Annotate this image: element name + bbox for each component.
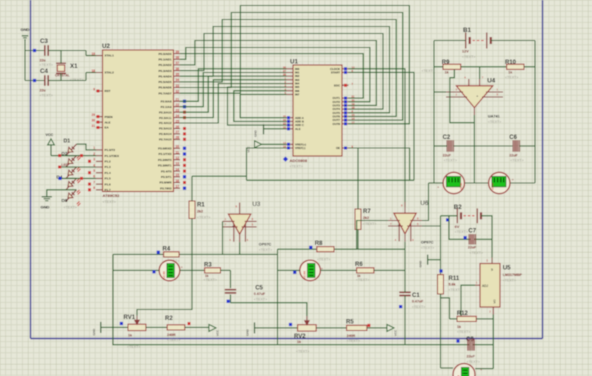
node C5 bottom bbox=[227, 300, 230, 303]
svg-text:15: 15 bbox=[352, 113, 355, 117]
svg-text:PSEN: PSEN bbox=[105, 115, 113, 119]
resistor R12 bbox=[457, 311, 476, 334]
led D4 bbox=[57, 175, 81, 195]
svg-text:+0.88: +0.88 bbox=[303, 271, 307, 279]
wire R1 bottom to RV1 wiper bbox=[137, 219, 192, 316]
wire B1 right rail bbox=[491, 41, 535, 184]
svg-text:B2: B2 bbox=[454, 204, 462, 211]
svg-text:15: 15 bbox=[176, 173, 180, 177]
wire led rail 2 bbox=[58, 166, 96, 168]
wire P0.6 bus to OUT7 bbox=[180, 13, 403, 121]
svg-text:R1: R1 bbox=[197, 203, 205, 209]
svg-text:9: 9 bbox=[93, 87, 95, 91]
svg-text:<TEXT>: <TEXT> bbox=[457, 330, 470, 334]
wire MV1 left bbox=[113, 269, 159, 271]
wire R1 top bbox=[192, 176, 247, 201]
power terminal VCC (LED chain) bbox=[46, 133, 55, 156]
potentiometer RV2 bbox=[294, 316, 316, 354]
regulator U5 bbox=[475, 258, 522, 315]
sheet border left edge bbox=[30, 0, 32, 339]
svg-text:21: 21 bbox=[176, 98, 180, 102]
wire mid drop bbox=[473, 115, 475, 183]
svg-text:18: 18 bbox=[352, 106, 355, 110]
svg-text:28: 28 bbox=[176, 136, 180, 140]
svg-text:RV1: RV1 bbox=[124, 315, 136, 321]
svg-text:+: + bbox=[476, 94, 478, 98]
svg-text:P1.7: P1.7 bbox=[105, 188, 112, 192]
svg-text:VCC: VCC bbox=[247, 146, 251, 153]
wire RV2 wiper bbox=[231, 303, 307, 316]
svg-text:P0.5/AD5: P0.5/AD5 bbox=[158, 80, 171, 84]
svg-text:<TEXT>: <TEXT> bbox=[470, 251, 483, 255]
svg-text:1k: 1k bbox=[457, 325, 461, 329]
svg-text:UA741: UA741 bbox=[488, 115, 500, 119]
svg-text:22: 22 bbox=[176, 103, 180, 107]
wire R11 bottom link bbox=[441, 294, 450, 319]
svg-text:7: 7 bbox=[93, 180, 95, 184]
wire B2 left bbox=[441, 215, 458, 217]
svg-text:0.47uF: 0.47uF bbox=[254, 292, 266, 296]
wire crystal bottom bbox=[60, 73, 62, 80]
node R4 left bbox=[157, 251, 160, 254]
svg-text:17: 17 bbox=[176, 185, 180, 189]
svg-text:C5: C5 bbox=[255, 285, 263, 291]
svg-text:<TEXT>: <TEXT> bbox=[127, 345, 140, 349]
svg-text:19: 19 bbox=[91, 52, 95, 56]
wire led rail 3 bbox=[58, 177, 96, 179]
capacitor C1 bbox=[399, 292, 425, 309]
wire R7 top bbox=[357, 148, 359, 209]
svg-text:37: 37 bbox=[176, 61, 180, 65]
svg-text:21: 21 bbox=[352, 95, 355, 99]
node R5 right bbox=[367, 324, 370, 327]
svg-text:U2: U2 bbox=[102, 43, 110, 50]
resistor R9 bbox=[442, 60, 461, 74]
mcu U2 unconnected left pin markers bbox=[88, 90, 100, 192]
wire U3out junction drop bbox=[277, 249, 279, 254]
node led rail markers bbox=[58, 154, 83, 180]
svg-text:P3.5/T1: P3.5/T1 bbox=[161, 175, 172, 179]
wire rail to meter bbox=[440, 294, 442, 368]
svg-text:14: 14 bbox=[176, 167, 180, 171]
svg-text:VCC: VCC bbox=[46, 133, 54, 137]
wire MV3 leads bbox=[429, 182, 489, 184]
svg-text:<TEXT>: <TEXT> bbox=[197, 216, 210, 220]
wire C7 branch bbox=[449, 216, 492, 240]
wire U6 +in up bbox=[422, 183, 429, 221]
svg-text:C3: C3 bbox=[40, 38, 48, 45]
svg-text:OE: OE bbox=[336, 146, 340, 150]
svg-text:OP07C: OP07C bbox=[421, 240, 434, 244]
terminal arrow (DAC2 out) bbox=[387, 324, 398, 336]
wire MV5 leads bbox=[441, 367, 494, 370]
wire P2.1 to IN1 bbox=[180, 73, 287, 107]
svg-text:XTAL2: XTAL2 bbox=[105, 71, 115, 75]
wire R10 right bbox=[524, 66, 535, 68]
svg-text:<TEXT>: <TEXT> bbox=[317, 257, 330, 261]
svg-text:<TEXT>: <TEXT> bbox=[455, 230, 468, 234]
wire led junction links bbox=[66, 156, 77, 190]
wire P0.7 bus to OUT8 bbox=[180, 6, 409, 124]
adc U1 name label bbox=[283, 157, 308, 169]
wire to XTAL1 bbox=[61, 51, 96, 56]
svg-text:+: + bbox=[397, 224, 399, 228]
wire ADD B loop bbox=[234, 91, 287, 122]
svg-text:P2.0/A8: P2.0/A8 bbox=[161, 100, 172, 104]
svg-text:R6: R6 bbox=[355, 262, 363, 268]
svg-text:<TEXT>: <TEXT> bbox=[510, 158, 523, 162]
svg-text:38: 38 bbox=[176, 56, 180, 60]
svg-text:P2.1/A9: P2.1/A9 bbox=[161, 105, 172, 109]
node rail above R11 bbox=[439, 269, 442, 272]
wire OE to net bbox=[349, 148, 410, 180]
svg-text:GND: GND bbox=[41, 205, 50, 210]
svg-text:23: 23 bbox=[176, 109, 180, 113]
svg-text:VCC: VCC bbox=[394, 329, 398, 336]
wire U3 feedback bbox=[222, 221, 224, 254]
voltmeter MV2 bbox=[300, 260, 324, 281]
mcu U2 right pin markers bbox=[183, 100, 186, 190]
wire RV1 row net bbox=[113, 326, 128, 328]
wire long ground net bbox=[247, 179, 415, 181]
svg-text:<TEXT>: <TEXT> bbox=[347, 339, 360, 343]
svg-text:<TEXT>: <TEXT> bbox=[296, 350, 309, 354]
svg-text:U6: U6 bbox=[420, 200, 428, 207]
svg-text:U1: U1 bbox=[290, 59, 298, 66]
wire B2 right to U5 bbox=[481, 216, 492, 258]
svg-text:VREF(-): VREF(-) bbox=[295, 146, 305, 150]
resistor R4 bbox=[163, 247, 180, 263]
svg-text:<TEXT>: <TEXT> bbox=[503, 278, 516, 282]
svg-text:CRYSTAL: CRYSTAL bbox=[55, 74, 70, 78]
node RV2 left bbox=[289, 323, 292, 326]
wire stage1 left drop bbox=[112, 254, 114, 327]
svg-text:ADC0808: ADC0808 bbox=[290, 158, 308, 163]
svg-text:R2: R2 bbox=[165, 316, 173, 322]
wire R5 to arrow bbox=[367, 327, 387, 329]
svg-text:<TEXT>: <TEXT> bbox=[290, 165, 303, 169]
wire START down bbox=[349, 72, 415, 180]
node stage2 in bbox=[309, 246, 312, 249]
wire CLOCK down bbox=[349, 69, 406, 207]
resistor R6 bbox=[355, 262, 374, 282]
svg-text:P3.3/INT1: P3.3/INT1 bbox=[158, 164, 172, 168]
mcu U2 body bbox=[102, 43, 174, 204]
voltmeter MV4 bbox=[489, 172, 515, 193]
svg-text:240R: 240R bbox=[347, 334, 356, 338]
wire U4 feedback bbox=[450, 69, 475, 122]
svg-text:+: + bbox=[232, 224, 234, 228]
wire P0.3 bus to OUT4 bbox=[180, 34, 383, 110]
svg-text:P3.6/WR: P3.6/WR bbox=[159, 181, 172, 185]
led D3 bbox=[62, 163, 81, 183]
svg-text:C1: C1 bbox=[412, 293, 420, 299]
wire C2 leads bbox=[434, 145, 512, 147]
wire P2.4 to IN4 bbox=[180, 84, 287, 124]
node C4 junction bbox=[33, 79, 36, 82]
svg-text:P0.4/AD4: P0.4/AD4 bbox=[158, 74, 171, 78]
svg-text:30: 30 bbox=[91, 118, 95, 122]
adc U1 right pins bbox=[330, 65, 355, 150]
capacitor C7 bbox=[468, 228, 483, 255]
crystal X1 bbox=[55, 63, 83, 82]
svg-text:P2.6/A14: P2.6/A14 bbox=[159, 132, 172, 136]
svg-text:P1.4: P1.4 bbox=[105, 171, 112, 175]
wire U6 lower right bbox=[422, 225, 441, 227]
svg-text:240R: 240R bbox=[167, 333, 176, 337]
wire MV4 right bbox=[510, 182, 535, 184]
svg-text:<TEXT>: <TEXT> bbox=[422, 69, 435, 73]
svg-text:2k2: 2k2 bbox=[363, 216, 369, 220]
node C3 junction bbox=[33, 49, 36, 52]
svg-text:U5: U5 bbox=[503, 265, 511, 272]
op-amp U4 bbox=[446, 76, 503, 125]
capacitor C8 bbox=[466, 337, 480, 364]
svg-text:19: 19 bbox=[352, 102, 355, 106]
wire MV2 left bbox=[278, 269, 300, 271]
svg-text:GND: GND bbox=[21, 27, 30, 32]
terminal arrow (DAC1 out) bbox=[209, 324, 220, 336]
capacitor C5 bbox=[225, 270, 267, 302]
svg-text:3: 3 bbox=[93, 158, 95, 162]
led D2 bbox=[62, 151, 81, 171]
svg-text:C2: C2 bbox=[443, 135, 451, 141]
resistor R10 bbox=[505, 60, 524, 79]
svg-text:GND: GND bbox=[254, 129, 258, 137]
wire P0.0 bus to OUT1 bbox=[180, 54, 363, 99]
svg-text:VI: VI bbox=[490, 268, 494, 271]
svg-text:<TEXT>: <TEXT> bbox=[505, 75, 518, 79]
wire U4 supply drop bbox=[479, 67, 481, 79]
ground (LED chain) bbox=[41, 190, 67, 210]
svg-text:1k: 1k bbox=[445, 70, 449, 74]
ground terminal (ADC ALE) bbox=[254, 124, 287, 137]
svg-text:22u: 22u bbox=[40, 58, 46, 62]
svg-text:ADJ: ADJ bbox=[482, 284, 488, 288]
svg-text:33: 33 bbox=[176, 84, 180, 88]
svg-text:LM317MBP: LM317MBP bbox=[503, 273, 523, 277]
mcu U2 right pins bbox=[158, 50, 180, 191]
svg-text:D8: D8 bbox=[62, 198, 68, 203]
svg-text:10: 10 bbox=[176, 145, 180, 149]
led D1 bbox=[64, 139, 81, 161]
svg-text:P3.2/INT0: P3.2/INT0 bbox=[158, 158, 172, 162]
svg-text:P0.2/AD2: P0.2/AD2 bbox=[158, 63, 171, 67]
ground terminal (U5 area) bbox=[419, 255, 441, 268]
svg-text:5.6k: 5.6k bbox=[449, 283, 456, 287]
svg-text:<TEXT>: <TEXT> bbox=[103, 200, 116, 204]
svg-text:P0.3/AD3: P0.3/AD3 bbox=[158, 69, 171, 73]
svg-text:P2.2/A10: P2.2/A10 bbox=[159, 110, 172, 114]
svg-text:<TEXT>: <TEXT> bbox=[462, 55, 475, 59]
svg-text:P1.0/T2: P1.0/T2 bbox=[105, 148, 116, 152]
svg-text:+0.88: +0.88 bbox=[162, 271, 166, 279]
wire MV1 right to R3 bbox=[180, 269, 205, 271]
wire B1 left rail bbox=[434, 41, 466, 184]
node C1 bottom bbox=[399, 305, 402, 308]
wire R2 to arrow bbox=[185, 326, 209, 328]
potentiometer RV1 bbox=[124, 315, 146, 349]
adc U1 left pins bbox=[283, 65, 306, 150]
svg-text:<TEXT>: <TEXT> bbox=[444, 158, 457, 162]
svg-text:8: 8 bbox=[93, 186, 95, 190]
svg-text:<TEXT>: <TEXT> bbox=[421, 246, 434, 250]
svg-text:U3: U3 bbox=[252, 201, 260, 208]
svg-text:GND: GND bbox=[419, 260, 423, 268]
svg-text:<TEXT>: <TEXT> bbox=[64, 206, 77, 210]
svg-text:X1: X1 bbox=[70, 63, 78, 70]
svg-text:P0.7/AD7: P0.7/AD7 bbox=[158, 91, 171, 95]
wire RV1 to R2 bbox=[146, 326, 167, 328]
battery B2 bbox=[454, 204, 481, 234]
capacitor C4 bbox=[40, 68, 62, 97]
svg-text:<TEXT>: <TEXT> bbox=[254, 298, 267, 302]
svg-text:27: 27 bbox=[283, 69, 286, 73]
adc U1 right pin markers bbox=[344, 67, 347, 149]
svg-text:20: 20 bbox=[352, 98, 355, 102]
svg-text:P2.7/A15: P2.7/A15 bbox=[159, 138, 172, 142]
wire U3 out down bbox=[277, 254, 279, 344]
svg-text:R7: R7 bbox=[363, 209, 371, 215]
svg-text:<TEXT>: <TEXT> bbox=[259, 248, 272, 252]
node B2 left bbox=[446, 218, 449, 221]
mcu U2 left pins bbox=[91, 52, 119, 192]
adc U1 left pin markers bbox=[287, 116, 290, 149]
svg-text:36: 36 bbox=[176, 67, 180, 71]
svg-text:1k: 1k bbox=[508, 70, 512, 74]
node MV2 left bbox=[293, 271, 296, 274]
wire U6 feedback bbox=[357, 221, 405, 250]
svg-text:31: 31 bbox=[91, 124, 95, 128]
wire P0.2 bus to OUT3 bbox=[180, 41, 376, 106]
svg-text:GND: GND bbox=[92, 328, 96, 336]
svg-text:P3.4/T0: P3.4/T0 bbox=[161, 169, 172, 173]
wire U3 output node bbox=[239, 242, 241, 254]
svg-text:XTAL1: XTAL1 bbox=[105, 54, 115, 58]
wire U5 adj bbox=[461, 285, 475, 319]
label near R9 bbox=[422, 69, 435, 73]
svg-text:R8: R8 bbox=[315, 241, 323, 247]
resistor R5 bbox=[346, 320, 367, 343]
voltmeter MV5 bbox=[453, 364, 483, 376]
led chain text bbox=[64, 206, 77, 210]
svg-text:1k: 1k bbox=[128, 333, 132, 337]
ground terminal (RV2 row) bbox=[246, 322, 298, 335]
svg-text:D1: D1 bbox=[64, 139, 71, 145]
ground terminal (RV1 row) bbox=[92, 322, 113, 335]
wire R9-R10 net bbox=[434, 66, 507, 68]
svg-text:P0.1/AD1: P0.1/AD1 bbox=[158, 58, 171, 62]
wire to XTAL2 bbox=[61, 73, 96, 81]
capacitor C6 bbox=[509, 135, 523, 162]
svg-text:IN7: IN7 bbox=[295, 93, 300, 97]
wire stage2 input net bbox=[278, 248, 406, 250]
battery B1 bbox=[462, 27, 491, 59]
svg-text:P3.7/RD: P3.7/RD bbox=[160, 186, 172, 190]
wire bottom long net bbox=[113, 327, 493, 344]
svg-text:P1.3: P1.3 bbox=[105, 165, 112, 169]
svg-text:C7: C7 bbox=[468, 228, 476, 234]
svg-text:24: 24 bbox=[176, 114, 180, 118]
svg-text:GND: GND bbox=[246, 328, 250, 336]
svg-text:P1.5: P1.5 bbox=[105, 177, 112, 181]
wire R3 to C5 bbox=[221, 269, 231, 271]
svg-text:<TEXT>: <TEXT> bbox=[449, 288, 462, 292]
svg-text:17: 17 bbox=[352, 120, 355, 124]
svg-text:P3.0/RXD: P3.0/RXD bbox=[158, 147, 172, 151]
wire U5 out down bbox=[492, 315, 494, 369]
node MV1 left bbox=[152, 270, 155, 273]
wire led rail 1 bbox=[51, 155, 96, 157]
wire R12 leads bbox=[450, 318, 494, 320]
svg-text:6V: 6V bbox=[455, 225, 460, 229]
svg-text:P2.5/A13: P2.5/A13 bbox=[159, 127, 172, 131]
voltmeter MV3 bbox=[437, 172, 464, 193]
node C7 left bbox=[464, 236, 467, 239]
svg-text:<TEXT>: <TEXT> bbox=[412, 305, 425, 309]
wire P2.0 to IN0 bbox=[180, 69, 287, 102]
wire U4 +in bbox=[434, 91, 446, 93]
wire led D1 top to P1.0 bbox=[77, 144, 97, 150]
op-amp U3 bbox=[223, 201, 273, 252]
svg-text:5: 5 bbox=[93, 169, 95, 173]
svg-text:P0.6/AD6: P0.6/AD6 bbox=[158, 86, 171, 90]
wire P0.4 bus to OUT5 bbox=[180, 27, 390, 113]
svg-text:P1.2: P1.2 bbox=[105, 160, 112, 164]
svg-text:2k2: 2k2 bbox=[197, 210, 203, 214]
wire gnd to C3/C4 bbox=[25, 40, 44, 81]
svg-text:13: 13 bbox=[176, 162, 180, 166]
svg-text:P1.6: P1.6 bbox=[105, 182, 112, 186]
svg-text:22uF: 22uF bbox=[467, 355, 476, 359]
wire P0.1 bus to OUT2 bbox=[180, 48, 370, 102]
op-amp U6 bbox=[388, 200, 434, 250]
svg-text:+0.88: +0.88 bbox=[491, 183, 495, 191]
node OE to R7 junction bbox=[0, 0, 1, 1]
svg-text:34: 34 bbox=[176, 78, 180, 82]
svg-text:25: 25 bbox=[176, 119, 180, 123]
svg-text:11: 11 bbox=[176, 150, 180, 154]
svg-text:AT89C52: AT89C52 bbox=[103, 193, 121, 198]
svg-text:22uF: 22uF bbox=[509, 153, 518, 157]
svg-text:39: 39 bbox=[176, 50, 180, 54]
capacitor C2 bbox=[443, 135, 457, 162]
svg-text:<TEXT>: <TEXT> bbox=[356, 278, 369, 282]
svg-text:0.47uF: 0.47uF bbox=[412, 300, 424, 304]
svg-text:+0.88: +0.88 bbox=[459, 183, 463, 191]
svg-text:22uF: 22uF bbox=[443, 153, 452, 157]
resistor R3 bbox=[204, 263, 221, 283]
svg-text:P1.1/T2EX: P1.1/T2EX bbox=[105, 154, 120, 158]
svg-text:C4: C4 bbox=[40, 68, 48, 75]
resistor R2 bbox=[165, 316, 185, 342]
wire C6 right bbox=[520, 145, 536, 147]
svg-text:18: 18 bbox=[91, 69, 95, 73]
svg-text:<TEXT>: <TEXT> bbox=[167, 338, 180, 342]
svg-text:22uF: 22uF bbox=[468, 246, 477, 250]
svg-text:ALE: ALE bbox=[295, 127, 301, 131]
wire ADD A loop bbox=[240, 94, 286, 117]
svg-text:C6: C6 bbox=[509, 135, 517, 141]
wire C1 net bbox=[404, 249, 406, 345]
svg-text:29: 29 bbox=[91, 113, 95, 117]
wire P2.3 to IN3 bbox=[180, 80, 287, 118]
svg-text:OUT8: OUT8 bbox=[333, 122, 341, 126]
resistor R11 bbox=[438, 275, 462, 294]
adc U1 body bbox=[290, 59, 342, 157]
svg-text:26: 26 bbox=[176, 125, 180, 129]
svg-text:EOC: EOC bbox=[334, 83, 340, 87]
